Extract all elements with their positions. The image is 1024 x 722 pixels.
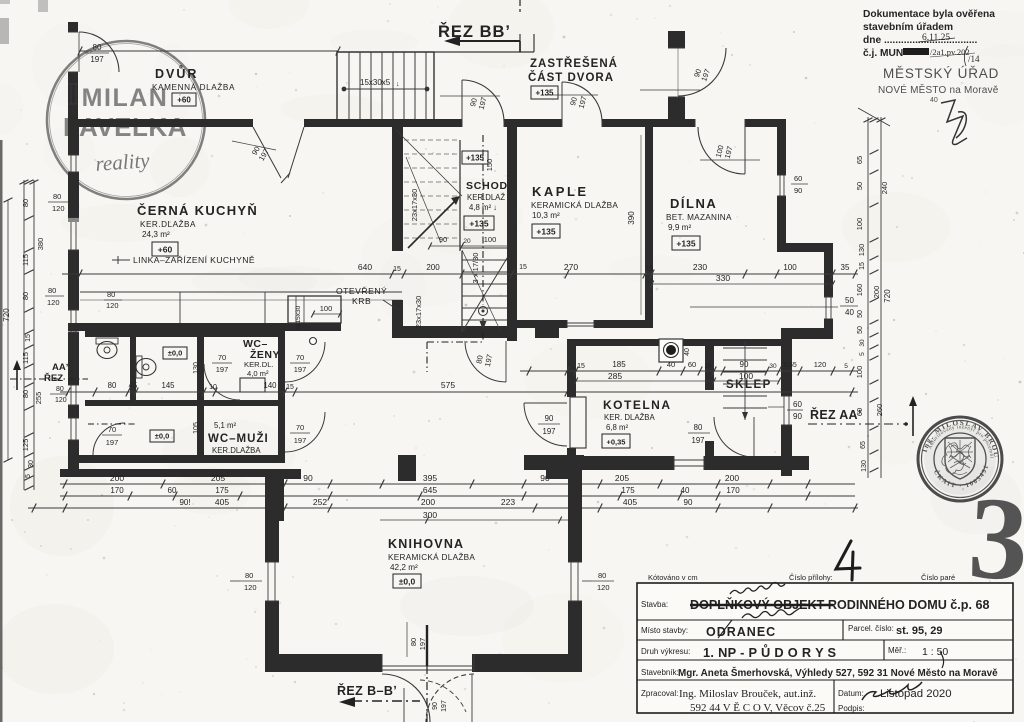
svg-text:KRB: KRB (352, 296, 371, 306)
svg-text:205: 205 (211, 473, 225, 483)
svg-text:50: 50 (855, 182, 864, 190)
svg-text:Číslo paré: Číslo paré (921, 573, 955, 582)
value box +135 zastresena (531, 86, 558, 99)
stair focus circle + down arrow (479, 307, 488, 316)
dim chain kotelna y371 (520, 370, 858, 372)
svg-text:80: 80 (56, 386, 64, 393)
window knihovna west (265, 561, 279, 563)
svg-text:100: 100 (855, 366, 864, 379)
window niche east (824, 296, 833, 298)
wall outer south-mid2 (704, 456, 809, 470)
wall kotelna east p1 (705, 346, 714, 390)
svg-text:Parcel. číslo:: Parcel. číslo: (848, 624, 894, 633)
svg-text:90: 90 (793, 412, 802, 421)
value box +135 dilna (672, 236, 700, 250)
stamp shield emblem (945, 438, 975, 479)
door arc courtyard east (668, 47, 685, 49)
svg-text:Zpracoval:: Zpracoval: (641, 689, 678, 698)
svg-text:125: 125 (21, 439, 30, 452)
svg-text:390: 390 (627, 211, 636, 225)
svg-text:ODRANEC: ODRANEC (706, 625, 776, 639)
sklep stair center line (744, 341, 746, 420)
svg-text:100: 100 (484, 235, 497, 244)
svg-text:±0,0: ±0,0 (155, 432, 170, 441)
svg-text:Dokumentace byla ověřena: Dokumentace byla ověřena (863, 9, 995, 20)
wall wc v2 (197, 333, 204, 461)
svg-text:KERAMICKÁ DLAŽBA: KERAMICKÁ DLAŽBA (388, 552, 475, 562)
svg-text:Mgr. Aneta Šmerhovská, Výhledy: Mgr. Aneta Šmerhovská, Výhledy 527, 592 … (678, 667, 998, 679)
svg-text:90: 90 (740, 360, 749, 369)
handwritten numeral 4 (836, 541, 860, 580)
svg-text:80: 80 (53, 192, 61, 201)
svg-text:50: 50 (857, 326, 864, 334)
wall top seg2 (304, 119, 462, 127)
svg-text:NOVÉ MĚSTO na Moravě: NOVÉ MĚSTO na Moravě (878, 83, 999, 96)
svg-text:130: 130 (861, 460, 868, 472)
svg-text:115: 115 (21, 352, 30, 364)
window west courtyard (68, 83, 78, 85)
svg-text:120: 120 (47, 298, 60, 307)
svg-text:+135: +135 (676, 239, 695, 249)
window knihovna east (568, 561, 582, 563)
door wc-zeny right arc (285, 342, 325, 382)
svg-text:LINKA–ZAŘÍZENÍ KUCHYNĚ: LINKA–ZAŘÍZENÍ KUCHYNĚ (133, 255, 255, 265)
door west courtyard jambs (68, 31, 78, 33)
wall kitchen south (68, 323, 299, 331)
svg-text:KER.DLAŽBA: KER.DLAŽBA (140, 219, 196, 229)
wall wc v3 (278, 333, 285, 403)
svg-text:40: 40 (930, 97, 938, 104)
svg-text:+135: +135 (466, 154, 485, 163)
window west wall 155 (68, 154, 79, 156)
svg-text:50: 50 (857, 310, 864, 318)
svg-text:60: 60 (168, 486, 177, 495)
sill (68, 218, 79, 222)
wall east outer p2 (781, 425, 792, 476)
svg-text:200: 200 (110, 473, 124, 483)
svg-text:100: 100 (855, 218, 864, 231)
svg-text:ŘEZ: ŘEZ (44, 372, 63, 384)
left dim chain (23, 180, 25, 490)
svg-text:15x30x5: 15x30x5 (360, 78, 391, 87)
svg-text:dne ..........................: dne ................................. (863, 35, 978, 46)
svg-text:80: 80 (21, 390, 30, 398)
wall west p1 (68, 122, 79, 155)
svg-text:15: 15 (393, 266, 401, 273)
leader 50/40 (690, 306, 838, 308)
svg-text:200: 200 (421, 497, 435, 507)
svg-text:KER.DLAŽ: KER.DLAŽ (467, 193, 505, 202)
dim line top-left y51 (80, 50, 338, 52)
svg-text:405: 405 (623, 497, 637, 507)
svg-text:80: 80 (21, 292, 30, 300)
value box +60 kitchen (152, 242, 178, 256)
knihovna south doors double arc (381, 654, 383, 672)
window west wall 385 (68, 384, 79, 386)
door corridor arc (465, 341, 506, 382)
wall wc v1 (130, 333, 136, 403)
svg-text:120: 120 (814, 360, 827, 369)
svg-text:270: 270 (564, 262, 578, 272)
title block table (637, 583, 1013, 713)
svg-text:252: 252 (313, 497, 327, 507)
wall west p4 (68, 332, 79, 385)
svg-text:240: 240 (880, 182, 889, 195)
svg-text:15: 15 (286, 384, 294, 391)
dim box 100 krb (313, 313, 340, 315)
svg-text:reality: reality (95, 148, 151, 176)
svg-text:10,3 m²: 10,3 m² (532, 211, 560, 220)
svg-text:380: 380 (36, 238, 45, 251)
wall right niche east upper (824, 243, 833, 297)
wall west upper stub (68, 22, 78, 32)
svg-text:145: 145 (161, 381, 175, 390)
svg-text:223: 223 (501, 497, 515, 507)
wall kaple west (507, 127, 517, 320)
svg-text:80: 80 (598, 571, 606, 580)
wall dilna step east (777, 243, 833, 252)
svg-text:197: 197 (691, 436, 704, 445)
svg-text:+60: +60 (177, 96, 191, 105)
wall stub stair low (392, 300, 403, 336)
svg-text:170: 170 (110, 486, 124, 495)
svg-text:42,2 m²: 42,2 m² (390, 563, 418, 572)
svg-text:40: 40 (845, 308, 854, 317)
pier corridor (398, 455, 416, 481)
svg-text:30: 30 (769, 363, 777, 370)
wall knihovna south e (472, 654, 582, 672)
svg-text:5: 5 (844, 363, 848, 370)
door wc-muzi left arc (93, 423, 125, 455)
svg-text:23x17x30: 23x17x30 (410, 189, 419, 222)
svg-text:+135: +135 (535, 89, 554, 98)
wall top seg1 (68, 119, 253, 127)
svg-text:170: 170 (726, 486, 740, 495)
svg-text:120: 120 (52, 204, 65, 213)
svg-text:80: 80 (245, 571, 253, 580)
svg-text:80: 80 (108, 381, 117, 390)
wall outer south-mid1 (524, 456, 674, 470)
svg-text:±0,0: ±0,0 (399, 577, 416, 587)
value box +135 schody (464, 216, 494, 230)
svg-text:720: 720 (2, 308, 11, 322)
svg-text:70: 70 (108, 425, 116, 434)
svg-text:197: 197 (294, 436, 307, 445)
wall kotelna north (567, 339, 792, 346)
svg-text:Druh výkresu:: Druh výkresu: (641, 647, 690, 656)
stair rail vertical (459, 140, 461, 251)
svg-text:105: 105 (193, 422, 200, 434)
svg-text:OTEVŘENÝ: OTEVŘENÝ (336, 286, 387, 296)
svg-text:ZASTŘEŠENÁ: ZASTŘEŠENÁ (530, 57, 618, 70)
wall knihovna west p1 (265, 469, 279, 562)
svg-text:640: 640 (358, 262, 372, 272)
section arrow BB (444, 36, 460, 46)
svg-text:stavebním úřadem: stavebním úřadem (863, 22, 953, 33)
courtyard roof edge line (338, 51, 534, 53)
svg-text:90: 90 (545, 414, 554, 423)
svg-text:Ing. Miloslav Brouček, aut.inž: Ing. Miloslav Brouček, aut.inž. (679, 688, 816, 700)
svg-text:160: 160 (855, 284, 864, 297)
window kaple south (566, 320, 568, 328)
svg-text:40: 40 (681, 486, 690, 495)
svg-text:KERAMICKÁ DLAŽBA: KERAMICKÁ DLAŽBA (531, 200, 618, 210)
wall outer south-left (60, 469, 299, 477)
wall wc v3 lower (278, 400, 285, 455)
watermark logo Milan Pavelka reality (47, 41, 205, 199)
wall knihovna east p1 (568, 469, 582, 562)
wall corridor south (524, 455, 584, 467)
stamp MESTSKY URAD (878, 66, 999, 104)
svg-text:KER.DLAŽBA: KER.DLAŽBA (212, 446, 261, 455)
dim chain rooms y274 (62, 273, 858, 275)
door arc dilna north (694, 119, 696, 127)
svg-text:4,0 m²: 4,0 m² (247, 369, 269, 378)
svg-text:3 x 17/30: 3 x 17/30 (471, 253, 480, 284)
section line BB bottom (426, 666, 428, 722)
wall stair south (392, 326, 517, 338)
svg-text:100: 100 (783, 263, 797, 272)
svg-text:20: 20 (463, 238, 471, 245)
svg-text:70: 70 (296, 353, 304, 362)
svg-text:MĚSTSKÝ ÚŘAD: MĚSTSKÝ ÚŘAD (883, 66, 999, 81)
svg-text:Číslo přílohy:: Číslo přílohy: (789, 573, 833, 582)
wall kotelna east p2 (705, 441, 714, 466)
wall dilna east p2 (777, 196, 786, 252)
svg-text:ŘEZ B–Bʼ: ŘEZ B–Bʼ (337, 683, 397, 698)
svg-text:35: 35 (841, 263, 850, 272)
svg-text:60: 60 (793, 400, 802, 409)
value box +135 kaple (532, 224, 560, 238)
window west wall 418 (68, 417, 79, 419)
wall wc mid (85, 400, 285, 406)
wall wc south (68, 455, 285, 463)
wall knihovna south w (265, 654, 382, 672)
kotelna flue fixture (659, 339, 683, 362)
svg-text:KER.DL.: KER.DL. (244, 360, 274, 369)
svg-text:9,9 m²: 9,9 m² (668, 223, 691, 232)
staircase upper flight treads (404, 140, 460, 238)
stub knihovna ne (546, 469, 568, 479)
svg-text:200: 200 (426, 263, 440, 272)
svg-text:5,1 m²: 5,1 m² (214, 421, 236, 430)
svg-text:Podpis:: Podpis: (838, 704, 865, 713)
wall kaple south w (507, 320, 567, 328)
svg-text:230: 230 (693, 262, 707, 272)
wall kotelna west p2 (567, 448, 576, 466)
svg-text:AAʼ: AAʼ (52, 362, 68, 373)
svg-text:10: 10 (209, 384, 217, 391)
svg-text:120: 120 (106, 301, 119, 310)
door wc-zeny left arc (204, 364, 240, 400)
svg-text:5: 5 (859, 352, 866, 356)
svg-text:+0,35: +0,35 (607, 438, 626, 447)
door arc west courtyard (79, 32, 119, 72)
dim chain wc y392 (60, 391, 858, 393)
signature titleblock (862, 682, 922, 700)
svg-text:KNIHOVNA: KNIHOVNA (388, 537, 464, 551)
wall east outer p1 (781, 339, 792, 396)
wall west below door (68, 72, 78, 122)
handwritten rozsireni (730, 583, 785, 595)
wall top seg5 (745, 119, 786, 127)
svg-text:90: 90 (794, 186, 802, 195)
window west wall 310 (68, 309, 79, 311)
wall kaple south e (594, 320, 653, 328)
svg-text:175: 175 (215, 486, 229, 495)
dim chains bottom (60, 483, 855, 485)
svg-text:60: 60 (688, 360, 696, 369)
wall knihovna west p2 (265, 601, 279, 654)
svg-text:23x17x30: 23x17x30 (414, 296, 423, 329)
svg-text:30: 30 (28, 460, 35, 468)
svg-text:80: 80 (21, 199, 30, 207)
section line BB through stair (482, 135, 484, 305)
door wc-muzi right arc (285, 412, 325, 452)
svg-text:6,8 m²: 6,8 m² (606, 423, 628, 432)
svg-text:Stavba:: Stavba: (641, 600, 668, 609)
svg-text:330: 330 (716, 273, 730, 283)
svg-text:90: 90 (439, 235, 447, 244)
svg-text:DÍLNA: DÍLNA (670, 196, 717, 211)
svg-text:6.11.25: 6.11.25 (922, 33, 950, 43)
svg-text:197: 197 (418, 638, 427, 651)
wall top seg3 (504, 119, 562, 127)
svg-text:80: 80 (694, 423, 703, 432)
svg-text:15: 15 (704, 363, 712, 370)
svg-text:60: 60 (794, 174, 802, 183)
window west wall 218 (68, 217, 79, 219)
svg-text:ŘEZ BBʼ: ŘEZ BBʼ (438, 22, 511, 41)
svg-text:645: 645 (423, 485, 437, 495)
door stop circle corridor (310, 338, 317, 345)
svg-text:100: 100 (320, 304, 333, 313)
wall kaple east (645, 127, 653, 320)
svg-text:285: 285 (608, 371, 622, 381)
door kotelna arc (524, 403, 567, 446)
fireplace OTEVRENY KRB (288, 296, 341, 323)
svg-text:90: 90 (432, 702, 439, 710)
door arc hall north (461, 119, 463, 127)
window dilna east (777, 174, 786, 176)
svg-text:40: 40 (684, 348, 691, 356)
toilet room1 (97, 342, 117, 359)
wall kotelna west p1 (567, 346, 576, 397)
svg-text:100: 100 (739, 371, 753, 381)
svg-text:4x15x30: 4x15x30 (295, 305, 302, 330)
wall kaple w ext (507, 300, 517, 341)
svg-text:120: 120 (55, 397, 67, 404)
right dim chain (867, 117, 869, 478)
wall dilna east p1 (777, 127, 786, 175)
svg-text:15: 15 (519, 264, 527, 271)
svg-text:90: 90 (303, 473, 313, 483)
svg-text:115: 115 (21, 254, 30, 266)
svg-text:5: 5 (25, 474, 32, 478)
svg-text:1. NP - P Ů D O R Y S: 1. NP - P Ů D O R Y S (703, 644, 837, 660)
value box 0,0 wc-muzi (150, 430, 174, 442)
svg-text:395: 395 (423, 473, 437, 483)
svg-text:65: 65 (860, 441, 867, 449)
svg-text:+135: +135 (536, 227, 555, 237)
wc-zeny sink fixture (240, 378, 265, 392)
wall west p3 (68, 250, 79, 310)
svg-text:KOTELNA: KOTELNA (603, 398, 672, 412)
svg-text:130: 130 (857, 244, 866, 257)
svg-text:150: 150 (485, 159, 494, 172)
section line BB top dash (519, 0, 521, 12)
svg-text:80: 80 (409, 638, 418, 646)
wall knihovna east p2 (568, 601, 582, 654)
svg-text:205: 205 (615, 473, 629, 483)
svg-text:140: 140 (263, 381, 277, 390)
svg-text:±0,0: ±0,0 (168, 349, 183, 358)
svg-text:Stavebník:: Stavebník: (641, 668, 679, 677)
toilet room2 (136, 359, 156, 376)
svg-text:197: 197 (542, 427, 555, 436)
svg-text:40: 40 (667, 360, 675, 369)
staircase lower flight treads (462, 248, 512, 320)
value box +60 dvur (172, 93, 196, 106)
svg-text:80: 80 (48, 286, 56, 295)
svg-text:405: 405 (215, 497, 229, 507)
svg-text:DVŮR: DVŮR (155, 65, 198, 81)
svg-text:175: 175 (621, 486, 635, 495)
svg-text:st. 95, 29: st. 95, 29 (896, 625, 942, 637)
svg-text:BET. MAZANINA: BET. MAZANINA (666, 213, 732, 222)
exterior stair block 15x30x5 (337, 52, 434, 122)
stair dims 90 100 (430, 245, 512, 247)
svg-text:197: 197 (441, 700, 448, 712)
svg-text:1 : 50: 1 : 50 (922, 646, 948, 658)
staircase diagonal upper (396, 130, 462, 196)
svg-text:70: 70 (296, 423, 304, 432)
sklep stair treads (723, 348, 767, 408)
kitchen counter outline (80, 291, 402, 293)
svg-text:200: 200 (872, 286, 881, 299)
svg-text:+135: +135 (469, 219, 488, 229)
svg-text:č.j. MUN: č.j. MUN (863, 48, 903, 59)
svg-text:130: 130 (193, 362, 200, 374)
svg-text:Datum:: Datum: (838, 689, 864, 698)
svg-text:575: 575 (441, 380, 455, 390)
window east outer (781, 395, 792, 397)
svg-text:KER. DLAŽBA: KER. DLAŽBA (604, 413, 655, 422)
svg-text:300: 300 (423, 510, 437, 520)
svg-text:120: 120 (244, 583, 257, 592)
wall niche south (781, 328, 833, 339)
dim 285 100 sub (576, 380, 714, 382)
wall right niche east lower (824, 319, 833, 328)
svg-text:197: 197 (90, 55, 104, 64)
svg-text:15: 15 (25, 334, 32, 342)
dim 330 sub (652, 283, 833, 285)
value box 0,0 room2 (163, 347, 187, 359)
svg-text:90: 90 (684, 498, 693, 507)
svg-text:↓: ↓ (396, 81, 400, 88)
svg-text:185: 185 (612, 360, 626, 369)
svg-text:ČERNÁ KUCHYŇ: ČERNÁ KUCHYŇ (137, 203, 258, 218)
scan edge left border (0, 140, 3, 722)
svg-text:KAPLE: KAPLE (532, 184, 589, 199)
stub knihovna nw (279, 469, 301, 479)
svg-text:200: 200 (725, 473, 739, 483)
wall wc north (85, 330, 285, 337)
stair handrail line (342, 88, 429, 90)
wall west p6 (68, 440, 79, 476)
svg-text:45: 45 (129, 381, 138, 390)
svg-text:ŘEZ AAʼ: ŘEZ AAʼ (810, 407, 862, 422)
